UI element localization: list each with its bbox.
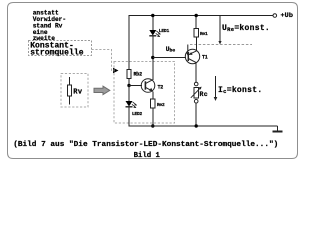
ground	[272, 130, 282, 132]
wire: LED2 anode from base node	[128, 86, 130, 102]
svg-text:(Bild 7 aus "Die Transistor-LE: (Bild 7 aus "Die Transistor-LED-Konstant…	[13, 141, 278, 149]
node: T2 base junction	[127, 84, 130, 87]
wire: +Ub top rail	[129, 15, 274, 17]
wire: T1 emitter up	[195, 37, 197, 51]
svg-text:Rb2: Rb2	[134, 72, 143, 78]
node on rail at LED1	[151, 14, 154, 17]
transistor T2 (NPN)	[141, 79, 155, 93]
wire: Rb2 to base node	[128, 79, 130, 86]
svg-text:Re1: Re1	[200, 31, 208, 37]
resistor Re2	[151, 99, 155, 108]
resistor Re1	[194, 29, 198, 38]
LED1	[149, 30, 161, 37]
wire: Re1 to rail	[195, 16, 197, 29]
svg-text:stromquelle: stromquelle	[30, 49, 84, 58]
page border frame	[8, 3, 298, 159]
svg-text:Re2: Re2	[157, 102, 165, 108]
label Ic=konst. with arrow	[214, 76, 218, 101]
svg-text:T1: T1	[202, 54, 208, 60]
wire: LED1 anode from rail	[152, 16, 154, 31]
svg-text:URe=konst.: URe=konst.	[222, 24, 270, 33]
leader line from label box to circuit	[92, 50, 119, 74]
wire: Re2 to bottom rail	[152, 108, 154, 126]
label URe=konst. with arrow	[218, 16, 221, 45]
replacement block arrow	[94, 86, 110, 94]
transistor T1 (PNP)	[185, 49, 199, 63]
svg-text:Bild 1: Bild 1	[134, 152, 161, 160]
node on bottom rail at Re2	[151, 124, 154, 127]
wire: Rc to bottom rail	[195, 103, 197, 126]
dashed reference line (emitter potential)	[190, 44, 252, 46]
terminal: Rc bottom	[194, 99, 198, 103]
node: T1 base junction	[151, 56, 154, 59]
wire: rail to ground	[276, 126, 278, 131]
node on bottom rail at Rc	[195, 124, 198, 127]
dashed box: second constant current source	[114, 62, 175, 124]
LED2	[126, 101, 138, 108]
wire: T2 collector up to LED1 node	[152, 58, 154, 81]
wire: bottom rail	[129, 125, 278, 127]
svg-text:LED1: LED1	[159, 28, 170, 34]
wire: rail down to Rb2	[128, 16, 130, 70]
resistor Rb2	[127, 70, 131, 79]
terminal: Rc top	[194, 82, 198, 86]
svg-text:+Ub: +Ub	[281, 12, 294, 20]
svg-text:Rv: Rv	[73, 89, 83, 97]
Konstantstromquelle label box	[29, 41, 92, 56]
wire: T1 collector down	[195, 63, 197, 83]
terminal +Ub	[273, 14, 277, 18]
svg-text:T2: T2	[158, 84, 164, 90]
resistor Rv	[67, 77, 71, 105]
wire: T2 emitter down	[152, 91, 154, 99]
node on rail at Re1	[195, 14, 198, 17]
note text block	[33, 9, 66, 42]
svg-text:LED2: LED2	[132, 111, 143, 117]
svg-text:Ic=konst.: Ic=konst.	[218, 86, 262, 95]
wire: LED1 cathode down to base node	[152, 36, 154, 58]
wire: LED2 cathode to bottom rail	[128, 107, 130, 127]
wire: base of T1	[153, 57, 186, 59]
wire: base of T2	[129, 85, 142, 87]
svg-text:Rc: Rc	[200, 91, 208, 98]
Rv dashed box	[61, 74, 88, 108]
resistor Rc (load, adjustable)	[194, 87, 198, 98]
